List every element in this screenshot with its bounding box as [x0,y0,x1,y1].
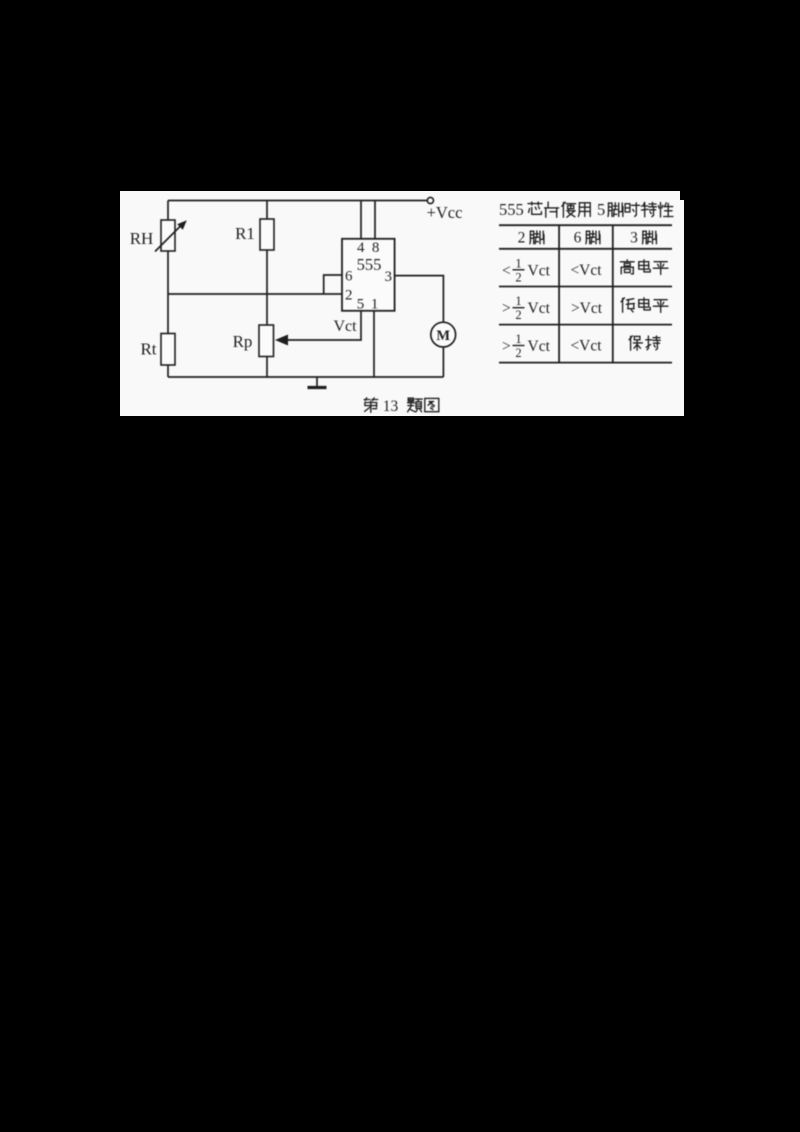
svg-text:2: 2 [518,229,526,246]
wire: pin 5 control-voltage Vct with arrow to Rp wiper [281,311,361,340]
svg-text:3: 3 [630,229,638,246]
svg-text:2: 2 [515,346,521,360]
IC U1: 555 timer body [342,239,395,311]
svg-text:1: 1 [515,294,521,308]
svg-text:1: 1 [515,332,521,346]
svg-text:Vct: Vct [528,300,551,317]
resistor R1 body [260,219,274,250]
svg-text:Rt: Rt [140,340,156,359]
arrowhead: Vct arrow pointing at Rp [275,335,288,346]
wire: Rt bottom to ground rail [167,365,169,377]
svg-text:>Vct: >Vct [571,300,603,317]
table grid lines [499,225,672,362]
svg-text:1: 1 [515,256,521,270]
svg-text:555: 555 [499,200,524,219]
svg-text:13: 13 [383,398,399,415]
resistor RH body (variable) [161,220,175,251]
svg-text:>: > [502,300,511,317]
wire: pin 4 to Vcc rail [360,201,362,239]
svg-text:5: 5 [357,296,365,312]
svg-text:Vct: Vct [333,318,357,335]
wire: trigger node horizontal to pin 2 [168,293,342,295]
motor M1 [431,322,456,347]
potentiometer Rp body [259,325,274,357]
svg-text:RH: RH [130,229,154,248]
svg-text:Vct: Vct [528,338,551,355]
wire: Vcc rail down to R1 top [266,201,268,220]
svg-text:2: 2 [515,270,521,284]
svg-text:5: 5 [597,200,605,219]
svg-text:1: 1 [371,296,379,312]
wire: R1 bottom to Rp top [266,250,268,325]
svg-text:+Vcc: +Vcc [427,203,463,222]
wire: pin 1 to ground rail [373,311,375,377]
wire: motor bottom to ground rail [442,347,444,377]
wire: bottom ground rail [168,376,443,378]
svg-text:<: < [502,262,511,279]
wire: Vcc rail down to RH top [167,201,169,221]
wire: pin 8 to Vcc rail [374,201,376,239]
wire: RH bottom to Rt top (left branch node) [167,251,169,334]
svg-text:6: 6 [574,229,582,246]
wire: +Vcc top supply rail [168,200,427,202]
resistor Rt body [161,334,175,366]
svg-text:Vct: Vct [528,262,551,279]
svg-text:3: 3 [385,269,393,285]
caption: 第 13 题图 [364,398,378,413]
wire: Rp bottom to ground rail [266,357,268,378]
svg-text:<Vct: <Vct [570,262,602,279]
white schematic panel [120,191,684,416]
svg-text:4: 4 [357,240,365,256]
svg-text:R1: R1 [235,224,255,243]
svg-text:8: 8 [372,240,380,256]
svg-text:>: > [502,338,511,355]
svg-text:M: M [436,328,450,344]
arrow: RH variable-resistor diagonal [155,225,182,252]
svg-text:2: 2 [515,308,521,322]
wire: pin 6 L-stub to trigger node [324,275,342,294]
svg-text:Rp: Rp [233,332,253,351]
svg-text:2: 2 [345,288,353,304]
ground symbol [316,377,318,387]
wire: pin 3 output to motor top [395,276,444,323]
svg-text:555: 555 [357,255,382,274]
black notch at panel top-right corner [680,191,684,200]
svg-text:<Vct: <Vct [570,338,602,355]
svg-text:6: 6 [345,269,353,285]
terminal: +Vcc supply node [427,197,433,203]
